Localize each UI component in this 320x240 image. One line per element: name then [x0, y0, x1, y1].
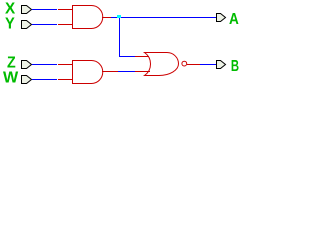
wire U3 lower input stub red — [135, 71, 150, 72]
wire U2 input stub W red — [58, 79, 73, 80]
AND gate U1 — [73, 6, 103, 29]
wire U1 output stub red — [102, 17, 111, 18]
AND gate U2 — [73, 61, 103, 84]
wire to U3 upper input blue — [119, 56, 135, 57]
NOR gate U3 body — [145, 53, 179, 76]
wire U3 output to B blue — [200, 64, 216, 65]
wire Z blue — [32, 64, 57, 65]
wire U1 input stub Y red — [58, 24, 73, 25]
wire U1 output to A blue — [111, 17, 216, 18]
wire U3 output stub red — [187, 64, 200, 65]
svg-text:A: A — [229, 11, 239, 28]
NOR gate U3 output bubble — [182, 61, 187, 66]
wire Y blue — [32, 24, 57, 25]
input pin W — [22, 76, 32, 84]
wire U2 output stub red — [102, 71, 118, 72]
wire U2 output to U3 blue — [118, 71, 135, 72]
input pin X — [22, 6, 32, 14]
wire U1 input stub X red — [58, 9, 73, 10]
input pin Z — [22, 61, 32, 69]
wire U2 input stub Z red — [58, 64, 73, 65]
input pin Y — [22, 21, 32, 29]
wire X blue — [32, 9, 57, 10]
svg-text:Y: Y — [5, 16, 15, 33]
svg-text:W: W — [3, 70, 18, 87]
svg-text:B: B — [231, 58, 239, 75]
wire junction drop vertical blue — [119, 18, 120, 56]
wire W blue — [32, 79, 57, 80]
junction node dot cyan — [117, 15, 121, 18]
output pin B — [217, 61, 226, 69]
output pin A — [217, 14, 226, 22]
wire U3 upper input stub red — [135, 56, 149, 57]
